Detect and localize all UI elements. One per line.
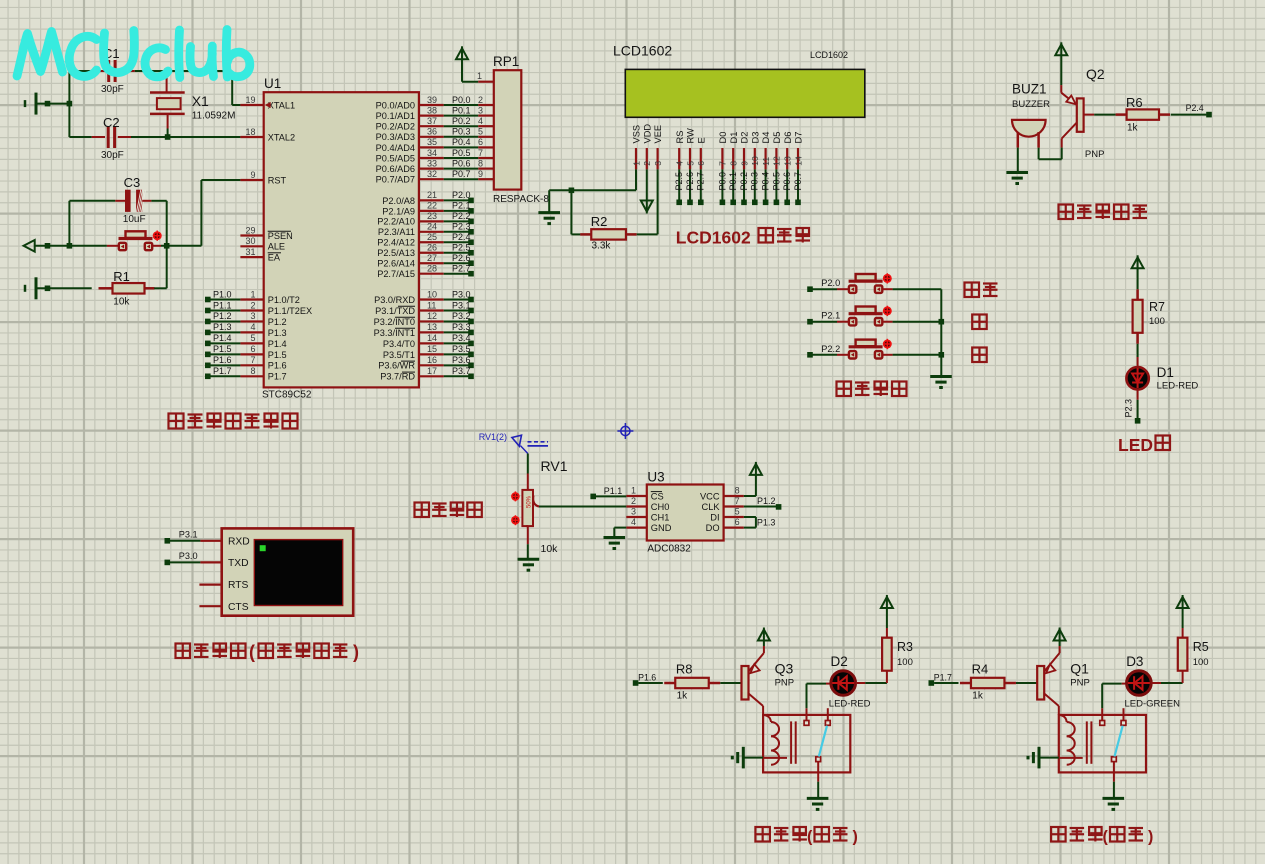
svg-text:P0.7: P0.7	[452, 169, 471, 179]
svg-text:P2.0/A8: P2.0/A8	[382, 196, 415, 206]
svg-text:P3.5: P3.5	[452, 344, 471, 354]
svg-text:PSEN: PSEN	[268, 231, 293, 241]
svg-text:(: (	[1103, 829, 1109, 846]
svg-text:3: 3	[478, 105, 483, 115]
svg-text:7: 7	[735, 496, 740, 506]
svg-text:D6: D6	[783, 132, 793, 144]
svg-text:P0.2: P0.2	[739, 172, 749, 191]
svg-text:P2.0: P2.0	[821, 278, 840, 288]
svg-text:D2: D2	[831, 654, 848, 669]
svg-text:P1.7: P1.7	[213, 366, 232, 376]
svg-text:P2.2: P2.2	[821, 344, 840, 354]
svg-text:9: 9	[739, 161, 749, 166]
svg-text:6: 6	[696, 161, 706, 166]
svg-text:XTAL2: XTAL2	[268, 132, 295, 142]
svg-text:Q2: Q2	[1086, 66, 1105, 82]
svg-text:3: 3	[653, 161, 663, 166]
svg-text:P0.1: P0.1	[728, 172, 738, 191]
svg-text:R3: R3	[897, 640, 913, 654]
svg-text:P1.7: P1.7	[268, 372, 287, 382]
svg-text:VCC: VCC	[700, 492, 720, 502]
svg-text:34: 34	[427, 148, 437, 158]
svg-text:P3.7/RD: P3.7/RD	[380, 372, 415, 382]
svg-text:RP1: RP1	[493, 54, 519, 69]
svg-text:30pF: 30pF	[101, 84, 124, 95]
svg-text:7: 7	[718, 161, 728, 166]
svg-text:1: 1	[631, 486, 636, 496]
svg-text:3.3k: 3.3k	[592, 241, 612, 252]
svg-text:26: 26	[427, 243, 437, 253]
svg-text:24: 24	[427, 222, 437, 232]
svg-text:CTS: CTS	[228, 602, 249, 613]
svg-text:LED-RED: LED-RED	[1157, 381, 1199, 392]
svg-text:P3.4/T0: P3.4/T0	[383, 339, 415, 349]
svg-text:LED: LED	[1118, 435, 1153, 455]
svg-text:3: 3	[250, 311, 255, 321]
svg-text:P0.5: P0.5	[771, 172, 781, 191]
svg-text:R6: R6	[1126, 95, 1143, 110]
svg-text:P3.1/TXD: P3.1/TXD	[375, 306, 415, 316]
svg-text:R7: R7	[1149, 300, 1165, 314]
svg-text:10uF: 10uF	[123, 214, 146, 225]
svg-text:14: 14	[427, 333, 437, 343]
svg-text:14: 14	[793, 156, 803, 166]
svg-text:36: 36	[427, 127, 437, 137]
svg-text:P1.2: P1.2	[213, 311, 232, 321]
svg-text:P0.0: P0.0	[717, 172, 727, 191]
svg-text:P0.1: P0.1	[452, 105, 471, 115]
svg-text:P2.1/A9: P2.1/A9	[382, 206, 415, 216]
svg-text:U1: U1	[264, 76, 281, 91]
svg-text:23: 23	[427, 211, 437, 221]
svg-text:P2.1: P2.1	[452, 201, 471, 211]
svg-text:P2.5: P2.5	[674, 172, 684, 191]
svg-text:ALE: ALE	[268, 242, 285, 252]
svg-text:P3.6/WR: P3.6/WR	[378, 361, 415, 371]
svg-text:P0.4: P0.4	[761, 172, 771, 191]
svg-text:P1.3: P1.3	[268, 328, 287, 338]
svg-text:P2.0: P2.0	[452, 190, 471, 200]
svg-text:RTS: RTS	[228, 580, 249, 591]
svg-text:R8: R8	[676, 662, 693, 677]
svg-text:RV1: RV1	[541, 458, 568, 474]
svg-text:P3.2/INT0: P3.2/INT0	[374, 317, 415, 327]
svg-text:P2.5/A13: P2.5/A13	[377, 248, 415, 258]
svg-text:28: 28	[427, 263, 437, 273]
svg-text:P1.7: P1.7	[934, 672, 952, 682]
svg-text:100: 100	[897, 657, 913, 668]
svg-text:P3.5/T1: P3.5/T1	[383, 350, 415, 360]
svg-text:(: (	[249, 642, 255, 662]
svg-text:1k: 1k	[677, 690, 689, 701]
svg-text:33: 33	[427, 158, 437, 168]
svg-text:21: 21	[427, 190, 437, 200]
svg-text:6: 6	[478, 137, 483, 147]
svg-text:Q1: Q1	[1070, 661, 1089, 677]
svg-text:10k: 10k	[113, 297, 130, 308]
svg-text:VEE: VEE	[653, 125, 663, 144]
svg-text:10: 10	[427, 289, 437, 299]
svg-text:RESPACK-8: RESPACK-8	[493, 194, 549, 205]
svg-text:RXD: RXD	[228, 536, 250, 547]
svg-text:11: 11	[427, 300, 436, 310]
svg-text:U3: U3	[647, 470, 664, 485]
svg-text:P2.7: P2.7	[696, 172, 706, 191]
svg-text:P3.2: P3.2	[452, 311, 471, 321]
svg-text:18: 18	[245, 127, 255, 137]
svg-text:30: 30	[245, 236, 255, 246]
svg-text:7: 7	[250, 355, 255, 365]
svg-text:P1.6: P1.6	[268, 361, 287, 371]
svg-text:8: 8	[478, 158, 483, 168]
svg-text:P2.1: P2.1	[821, 311, 840, 321]
svg-text:1: 1	[250, 289, 255, 299]
svg-text:P1.0/T2: P1.0/T2	[268, 295, 300, 305]
svg-text:8: 8	[729, 161, 739, 166]
svg-text:100: 100	[1193, 657, 1209, 668]
svg-text:P2.2: P2.2	[452, 211, 471, 221]
svg-text:13: 13	[427, 322, 437, 332]
svg-text:1k: 1k	[972, 690, 984, 701]
svg-text:C2: C2	[103, 115, 120, 130]
svg-text:D1: D1	[729, 132, 739, 144]
svg-text:LCD1602: LCD1602	[810, 50, 848, 60]
svg-text:P3.3: P3.3	[452, 322, 471, 332]
svg-text:5: 5	[478, 127, 483, 137]
svg-text:BUZZER: BUZZER	[1012, 99, 1050, 110]
svg-text:D3: D3	[750, 132, 760, 144]
svg-text:5: 5	[250, 333, 255, 343]
svg-text:13: 13	[783, 156, 793, 166]
svg-text:P0.3: P0.3	[750, 172, 760, 191]
svg-text:P0.1/AD1: P0.1/AD1	[376, 111, 415, 121]
svg-text:R2: R2	[591, 214, 608, 229]
svg-text:P0.0: P0.0	[452, 95, 471, 105]
svg-text:P2.7: P2.7	[452, 263, 471, 273]
svg-text:PNP: PNP	[1085, 149, 1105, 160]
svg-text:P1.1: P1.1	[604, 486, 623, 496]
svg-text:27: 27	[427, 253, 437, 263]
svg-text:P3.1: P3.1	[452, 300, 471, 310]
svg-text:10: 10	[750, 156, 760, 166]
svg-text:7: 7	[478, 148, 483, 158]
svg-text:D5: D5	[772, 132, 782, 144]
svg-text:X1: X1	[192, 93, 209, 109]
svg-text:37: 37	[427, 116, 437, 126]
svg-text:TXD: TXD	[228, 558, 249, 569]
svg-text:XTAL1: XTAL1	[268, 100, 295, 110]
svg-text:PNP: PNP	[1070, 678, 1090, 689]
svg-text:P1.4: P1.4	[213, 333, 232, 343]
svg-text:15: 15	[427, 344, 437, 354]
svg-text:3: 3	[631, 507, 636, 517]
svg-text:35: 35	[427, 137, 437, 147]
svg-text:P2.4: P2.4	[1186, 103, 1204, 113]
svg-text:1: 1	[477, 71, 482, 81]
svg-text:P2.4: P2.4	[452, 232, 471, 242]
svg-text:5: 5	[685, 161, 695, 166]
svg-text:E: E	[696, 137, 706, 143]
svg-text:2: 2	[478, 95, 483, 105]
svg-text:P0.7/AD7: P0.7/AD7	[376, 175, 415, 185]
svg-text:CH0: CH0	[651, 502, 670, 512]
svg-text:RW: RW	[686, 128, 696, 144]
svg-text:9: 9	[478, 169, 483, 179]
svg-text:31: 31	[245, 247, 255, 257]
svg-text:P1.6: P1.6	[638, 672, 656, 682]
svg-text:22: 22	[427, 201, 437, 211]
svg-text:19: 19	[245, 95, 255, 105]
svg-text:CS: CS	[651, 492, 664, 502]
svg-text:38: 38	[427, 105, 437, 115]
svg-text:P3.0: P3.0	[452, 289, 471, 299]
svg-text:VSS: VSS	[632, 125, 642, 144]
svg-text:DO: DO	[706, 523, 720, 533]
svg-text:P1.3: P1.3	[757, 518, 776, 528]
svg-text:RV1(2): RV1(2)	[479, 432, 507, 442]
svg-text:P2.6/A14: P2.6/A14	[377, 259, 415, 269]
svg-text:P0.4/AD4: P0.4/AD4	[376, 143, 415, 153]
svg-text:P1.6: P1.6	[213, 355, 232, 365]
svg-text:5: 5	[735, 507, 740, 517]
svg-text:P0.6: P0.6	[452, 158, 471, 168]
svg-text:P0.7: P0.7	[793, 172, 803, 191]
svg-text:LCD1602: LCD1602	[676, 228, 751, 248]
svg-text:6: 6	[250, 344, 255, 354]
svg-text:DI: DI	[710, 513, 719, 523]
svg-text:P3.1: P3.1	[179, 529, 198, 539]
svg-text:P1.2: P1.2	[268, 317, 287, 327]
svg-text:6: 6	[735, 517, 740, 527]
svg-text:32: 32	[427, 169, 437, 179]
svg-text:D0: D0	[718, 132, 728, 144]
svg-text:C3: C3	[124, 175, 141, 190]
svg-text:P2.3/A11: P2.3/A11	[378, 227, 415, 237]
svg-text:P3.6: P3.6	[452, 355, 471, 365]
svg-text:8: 8	[735, 486, 740, 496]
svg-text:P2.3: P2.3	[452, 222, 471, 232]
svg-text:P1.1: P1.1	[213, 300, 232, 310]
svg-text:11.0592M: 11.0592M	[192, 111, 236, 122]
svg-text:17: 17	[427, 366, 437, 376]
svg-text:PNP: PNP	[775, 678, 795, 689]
svg-text:30pF: 30pF	[101, 150, 124, 161]
svg-text:50%: 50%	[527, 495, 533, 508]
svg-text:P2.6: P2.6	[685, 172, 695, 191]
svg-text:P1.4: P1.4	[268, 339, 287, 349]
svg-text:10k: 10k	[541, 543, 559, 555]
svg-text:P0.5/AD5: P0.5/AD5	[376, 153, 415, 163]
svg-text:(: (	[807, 829, 813, 846]
svg-text:P1.5: P1.5	[213, 344, 232, 354]
svg-text:25: 25	[427, 232, 437, 242]
svg-text:1: 1	[631, 161, 641, 166]
svg-text:LED-GREEN: LED-GREEN	[1125, 699, 1181, 710]
svg-text:LED-RED: LED-RED	[829, 699, 871, 710]
svg-text:): )	[353, 642, 359, 662]
svg-text:BUZ1: BUZ1	[1012, 82, 1047, 97]
svg-text:P2.5: P2.5	[452, 243, 471, 253]
svg-text:D3: D3	[1126, 654, 1143, 669]
svg-text:39: 39	[427, 95, 437, 105]
svg-text:CH1: CH1	[651, 513, 670, 523]
svg-text:11: 11	[761, 157, 771, 166]
svg-text:P3.4: P3.4	[452, 333, 471, 343]
svg-text:P3.3/INT1: P3.3/INT1	[374, 328, 415, 338]
svg-text:4: 4	[250, 322, 255, 332]
svg-text:P1.1/T2EX: P1.1/T2EX	[268, 306, 312, 316]
svg-text:16: 16	[427, 355, 437, 365]
svg-text:P1.5: P1.5	[268, 350, 287, 360]
svg-text:P2.4/A12: P2.4/A12	[377, 238, 415, 248]
svg-text:P0.6: P0.6	[782, 172, 792, 191]
svg-text:CLK: CLK	[702, 502, 721, 512]
svg-text:1k: 1k	[1127, 123, 1139, 134]
svg-text:RST: RST	[268, 175, 287, 185]
svg-text:ADC0832: ADC0832	[647, 544, 691, 555]
svg-text:12: 12	[772, 156, 782, 166]
svg-text:EA: EA	[268, 253, 281, 263]
svg-text:P1.0: P1.0	[213, 289, 232, 299]
svg-text:Q3: Q3	[775, 661, 794, 677]
svg-text:100: 100	[1149, 316, 1165, 327]
svg-text:R1: R1	[113, 269, 130, 284]
svg-text:R4: R4	[972, 662, 989, 677]
svg-text:): )	[853, 829, 858, 846]
svg-text:12: 12	[427, 311, 437, 321]
svg-text:P0.3: P0.3	[452, 127, 471, 137]
svg-text:R5: R5	[1193, 640, 1209, 654]
svg-text:VDD: VDD	[642, 124, 652, 144]
svg-text:P1.3: P1.3	[213, 322, 232, 332]
svg-text:P0.0/AD0: P0.0/AD0	[376, 100, 415, 110]
svg-text:4: 4	[675, 161, 685, 166]
svg-text:D2: D2	[740, 132, 750, 144]
svg-text:STC89C52: STC89C52	[262, 390, 312, 401]
svg-text:D1: D1	[1157, 365, 1174, 380]
svg-text:D4: D4	[761, 132, 771, 144]
svg-text:2: 2	[642, 161, 652, 166]
svg-text:2: 2	[631, 496, 636, 506]
svg-text:P0.3/AD3: P0.3/AD3	[376, 132, 415, 142]
svg-text:4: 4	[631, 517, 636, 527]
svg-text:2: 2	[250, 300, 255, 310]
svg-text:RS: RS	[675, 131, 685, 144]
svg-text:P0.6/AD6: P0.6/AD6	[376, 164, 415, 174]
svg-text:P3.7: P3.7	[452, 366, 471, 376]
svg-text:4: 4	[478, 116, 483, 126]
svg-text:P2.3: P2.3	[1123, 399, 1133, 418]
svg-text:P2.6: P2.6	[452, 253, 471, 263]
svg-text:P2.2/A10: P2.2/A10	[377, 217, 415, 227]
svg-text:P0.5: P0.5	[452, 148, 471, 158]
svg-text:D7: D7	[794, 132, 804, 144]
svg-text:9: 9	[250, 170, 255, 180]
svg-text:P0.2: P0.2	[452, 116, 471, 126]
svg-text:LCD1602: LCD1602	[613, 43, 672, 59]
svg-text:P2.7/A15: P2.7/A15	[377, 269, 415, 279]
svg-text:29: 29	[245, 225, 255, 235]
svg-text:P0.4: P0.4	[452, 137, 471, 147]
svg-text:P3.0/RXD: P3.0/RXD	[374, 295, 415, 305]
svg-text:GND: GND	[651, 523, 672, 533]
svg-text:P3.0: P3.0	[179, 551, 198, 561]
svg-text:): )	[1148, 829, 1153, 846]
svg-text:P0.2/AD2: P0.2/AD2	[376, 122, 415, 132]
svg-text:P1.2: P1.2	[757, 496, 776, 506]
svg-text:8: 8	[250, 366, 255, 376]
